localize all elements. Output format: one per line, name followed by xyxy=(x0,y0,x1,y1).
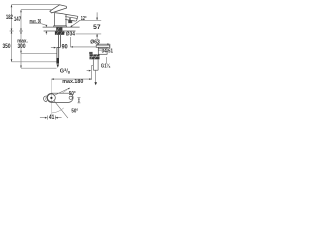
svg-text:350: 350 xyxy=(3,43,11,50)
arrow pointing at rod line xyxy=(87,70,89,72)
svg-text:max.180: max.180 xyxy=(62,79,83,85)
plan view centreline from lever tip xyxy=(50,80,52,118)
faucet side view xyxy=(50,5,78,27)
dimension line d63 xyxy=(96,43,109,45)
wire reference line 350 level xyxy=(12,61,57,63)
lever handle side view xyxy=(50,5,67,13)
countertop deck bottom line xyxy=(44,30,76,32)
swing angle lower 50 xyxy=(54,100,68,118)
wire reference line max300 level xyxy=(21,52,57,54)
aerator dark insert xyxy=(69,18,70,23)
spout bottom edge xyxy=(65,20,76,22)
svg-text:41: 41 xyxy=(49,114,55,121)
spout end cap xyxy=(76,16,78,21)
small vertical dimension at plan right xyxy=(77,98,80,103)
stadium body outline xyxy=(47,93,73,102)
flexible hose xyxy=(56,47,58,58)
countertop deck top line xyxy=(43,26,80,28)
dimension max.180 xyxy=(51,78,91,80)
shank hatched through deck xyxy=(56,27,62,30)
leader dash to nut xyxy=(63,31,65,34)
svg-text:57: 57 xyxy=(93,24,101,31)
svg-text:50°: 50° xyxy=(69,91,76,97)
waste tailpipe xyxy=(93,59,98,70)
faucet body left edge xyxy=(54,13,56,26)
leader G1 1/4 xyxy=(106,57,108,64)
waste locknut hatched xyxy=(90,54,100,59)
wire extension line top 147 xyxy=(21,9,52,11)
extension line right of flange xyxy=(109,44,111,48)
hose end cone tip xyxy=(57,64,60,67)
dimension 147/max300 vertical line xyxy=(20,10,22,68)
svg-text:G1¼: G1¼ xyxy=(101,62,111,69)
tail centreline with arrow xyxy=(95,70,97,82)
link to tailpipe xyxy=(92,65,94,67)
tick at deck underside on 147 line xyxy=(19,30,23,32)
hose end nut dark xyxy=(56,58,59,64)
faucet body right edge xyxy=(65,14,67,26)
dimension 90 xyxy=(70,37,72,47)
dimension 182 vertical line xyxy=(11,5,13,62)
svg-text:34-51: 34-51 xyxy=(102,49,113,55)
pull rod boss xyxy=(89,52,92,54)
arrow max30 up to deck bottom xyxy=(46,31,48,33)
spout inner slant xyxy=(65,17,77,19)
svg-text:90: 90 xyxy=(62,44,68,51)
arrows on left dimension lines xyxy=(11,5,22,68)
spout top edge xyxy=(64,14,78,16)
dimension 41 xyxy=(40,116,62,120)
svg-text:182: 182 xyxy=(6,14,13,21)
pull rod vertical reference xyxy=(91,65,93,79)
aerator housing xyxy=(68,20,72,23)
svg-text:147: 147 xyxy=(14,16,22,23)
svg-text:12°: 12° xyxy=(81,16,87,22)
mounting nut hatched xyxy=(55,31,64,35)
threaded stud xyxy=(57,35,61,58)
cartridge circle xyxy=(48,94,56,102)
svg-text:50°: 50° xyxy=(71,109,78,115)
wire reference line hose tip level xyxy=(21,67,57,69)
dimension 57 xyxy=(96,12,98,40)
wire extension line top 182 xyxy=(12,4,60,6)
tick at deck underside on 182 line xyxy=(10,30,14,32)
waste body xyxy=(98,47,107,54)
plan view of faucet xyxy=(44,93,74,102)
base flare xyxy=(54,26,67,27)
basin rim reference line xyxy=(76,33,102,35)
svg-text:Ø34: Ø34 xyxy=(66,31,76,37)
spout outlet reference line xyxy=(79,19,101,21)
faucet body top edge xyxy=(55,13,64,14)
centre dot xyxy=(50,97,52,99)
leader 12deg to deck xyxy=(71,21,80,27)
arrow max30 down to deck top xyxy=(46,25,48,27)
waste flange xyxy=(96,45,109,54)
outlet circle plan xyxy=(69,96,72,99)
swing angle upper 50 xyxy=(54,88,70,96)
svg-text:300: 300 xyxy=(18,43,26,50)
lever tip plan xyxy=(44,96,47,102)
